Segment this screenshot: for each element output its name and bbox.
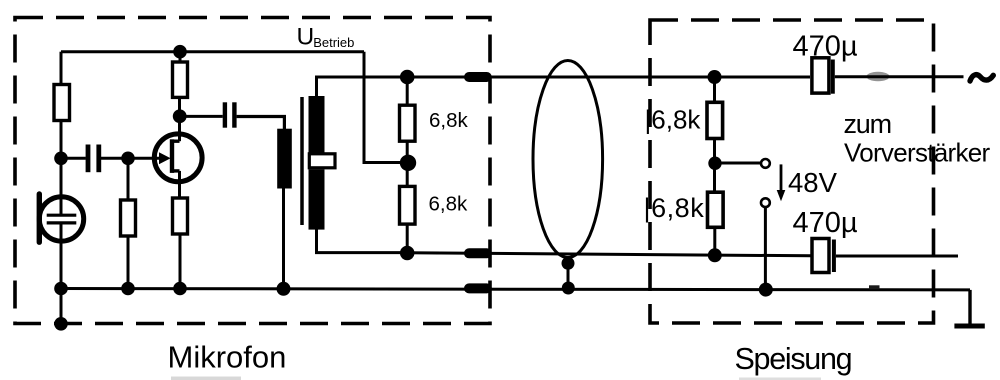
svg-text:6,8k: 6,8k xyxy=(429,192,468,215)
resistor R1 xyxy=(54,85,70,121)
wire R2 to bus xyxy=(127,236,130,289)
wire R3 to bus xyxy=(179,234,182,289)
wire source down to R3 xyxy=(178,171,181,198)
wire drain up to R4 xyxy=(178,97,181,141)
wire R7 to mid node xyxy=(713,139,716,164)
resistor R3 xyxy=(173,198,188,234)
capacitor C2 plate left xyxy=(223,102,227,127)
transistor Q1 source step xyxy=(172,169,180,172)
arrow 48V xyxy=(780,164,783,191)
node R3 bus dot xyxy=(173,282,187,296)
resistor R5 6,8k xyxy=(400,105,416,141)
node speisung bottom dot xyxy=(708,248,722,262)
capsule membrane bracket xyxy=(37,194,42,242)
node rail dot xyxy=(173,45,187,59)
transformer T1 core line xyxy=(300,97,304,225)
node gate branch dot xyxy=(54,152,68,166)
wire primary to ground bus xyxy=(282,189,285,289)
wire R5 to mid node xyxy=(406,141,409,186)
wire left vertical branch (rail to R1) xyxy=(60,52,63,85)
cable ellipse xyxy=(533,61,603,258)
resistor R7 6,8k xyxy=(707,102,723,138)
svg-text:Betrieb: Betrieb xyxy=(313,35,354,50)
capacitor C3 electrolytic body xyxy=(812,58,829,93)
ground earth bar xyxy=(954,324,984,329)
ghost artifact under Speisung xyxy=(739,378,821,380)
svg-text:Vorverstärker: Vorverstärker xyxy=(844,138,991,168)
transformer T1 primary winding xyxy=(277,129,292,189)
resistor R2 xyxy=(121,200,136,236)
node divider top dot xyxy=(400,70,415,85)
switch contact upper open circle xyxy=(761,159,770,168)
svg-text:48V: 48V xyxy=(788,167,838,198)
capsule plate top xyxy=(47,214,77,217)
node shield bus dot xyxy=(562,282,575,295)
microphone capsule circle xyxy=(39,197,83,241)
svg-text:6,8k: 6,8k xyxy=(429,109,468,132)
capacitor C1 plate left xyxy=(86,145,91,173)
node primary bus dot xyxy=(277,282,291,296)
wire gate junction to JFET arrow xyxy=(128,157,160,160)
wire U_Betrieb feed down to resistor divider midpoint xyxy=(364,52,408,163)
wire gate node to coupling cap xyxy=(61,157,86,160)
wire C4 to output xyxy=(836,255,958,258)
transistor Q1 drain step xyxy=(172,139,180,142)
Speisung enclosure dashed box xyxy=(650,20,934,323)
node speisung divider top dot xyxy=(708,70,722,84)
smudge artifact on wire xyxy=(867,72,890,82)
transistor Q1 channel bar xyxy=(170,139,174,173)
wire shield to earth xyxy=(968,290,971,324)
output symbol tilde xyxy=(970,75,993,81)
svg-text:|6,8k: |6,8k xyxy=(644,193,705,223)
connector pin bar line1 xyxy=(469,72,487,82)
wire R1 to mic capsule xyxy=(60,121,63,216)
wire line1 hot to speisung xyxy=(407,76,810,79)
node divider mid dot xyxy=(400,155,416,171)
node divider bottom dot xyxy=(400,246,415,261)
transformer T1 secondary winding lower xyxy=(309,169,325,229)
node speisung mid dot xyxy=(708,157,721,170)
connector pin bar line2 xyxy=(469,248,487,258)
wire C2 to transformer primary xyxy=(237,117,285,130)
wire line3 shield bus xyxy=(61,289,970,290)
transistor Q1 JFET circle xyxy=(154,134,202,182)
wire secondary bottom lead xyxy=(317,229,408,253)
tick artifact on shield wire xyxy=(869,285,880,289)
node R2 bus dot xyxy=(121,282,135,296)
node cable shield dot xyxy=(562,257,575,270)
resistor R8 6,8k xyxy=(708,192,724,227)
svg-text:|6,8k: |6,8k xyxy=(645,104,702,134)
wire lower contact to shield bus xyxy=(764,207,767,289)
Mikrofon enclosure dashed box xyxy=(15,18,490,324)
capacitor C2 plate right xyxy=(232,102,236,127)
connector pin bar line3 xyxy=(469,283,487,293)
node 48V return bus dot xyxy=(759,283,773,297)
capacitor C4 plate xyxy=(832,240,836,273)
svg-text:Mikrofon: Mikrofon xyxy=(168,340,287,375)
wire cable shield to bus xyxy=(567,263,570,288)
node bus junction xyxy=(54,282,68,296)
transformer T1 secondary winding upper xyxy=(309,96,325,153)
wire R6 to bottom node xyxy=(406,224,409,253)
wire secondary top lead xyxy=(317,77,408,97)
capacitor C3 plate xyxy=(831,60,835,94)
wire mid node to switch contact xyxy=(715,162,760,165)
ghost artifact under Mikrofon xyxy=(171,377,241,380)
wire top dot to R5 xyxy=(406,77,409,105)
svg-text:zum: zum xyxy=(844,109,891,139)
wire R4 to rail xyxy=(179,52,182,62)
wire C1 to gate junction xyxy=(101,157,128,160)
transformer T1 center tap tab xyxy=(309,154,335,168)
node case junction on dashed border xyxy=(54,317,68,331)
capacitor C1 plate right xyxy=(96,145,101,173)
resistor R4 xyxy=(173,62,188,97)
resistor R6 6,8k xyxy=(400,186,416,224)
switch contact lower open circle xyxy=(761,198,770,207)
wire line2 cold to speisung xyxy=(407,253,811,256)
svg-text:U: U xyxy=(297,24,315,51)
resistor R2 lead xyxy=(127,158,130,200)
capacitor C4 electrolytic body xyxy=(812,239,829,273)
capsule plate bottom xyxy=(47,221,77,224)
wire drain to C2 xyxy=(180,115,223,118)
svg-text:470µ: 470µ xyxy=(793,207,858,239)
wire C3 to output xyxy=(835,75,964,78)
node gate junction dot xyxy=(121,152,135,166)
JFET gate arrowhead xyxy=(159,152,171,164)
node drain dot xyxy=(173,109,187,123)
svg-text:Speisung: Speisung xyxy=(735,342,852,376)
wire R8 to bottom node xyxy=(713,227,716,255)
wire capsule to ground bus xyxy=(60,223,63,324)
wire mid node to R8 xyxy=(713,163,716,192)
wire supply rail top xyxy=(61,50,364,53)
wire top dot to R7 xyxy=(713,77,716,102)
